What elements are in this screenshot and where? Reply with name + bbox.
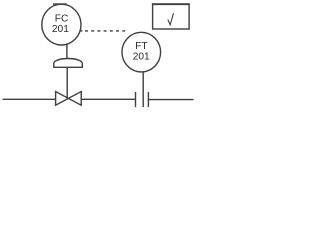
svg-text:FT: FT bbox=[135, 41, 147, 52]
svg-text:201: 201 bbox=[133, 51, 150, 62]
svg-text:201: 201 bbox=[52, 24, 69, 35]
